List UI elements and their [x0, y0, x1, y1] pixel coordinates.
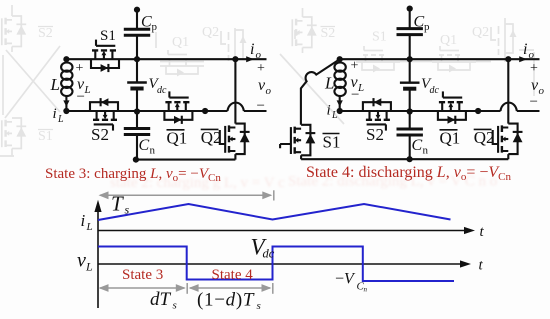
svg-text:−: − [77, 89, 85, 105]
svg-text:Q2: Q2 [472, 25, 489, 40]
svg-text:State 4: State 4 [212, 267, 254, 283]
svg-text:n: n [364, 286, 368, 294]
svg-text:S1: S1 [100, 28, 116, 44]
svg-text:i: i [250, 41, 254, 58]
svg-text:o: o [529, 49, 535, 61]
svg-text:State 4: discharging L, vo= −V: State 4: discharging L, vo= −VCn [306, 164, 511, 183]
svg-text:C: C [141, 14, 152, 31]
svg-text:s: s [125, 203, 130, 217]
svg-text:L: L [86, 221, 93, 233]
svg-text:S2: S2 [38, 26, 53, 41]
svg-text:i: i [53, 106, 57, 122]
svg-text:State 3: charging L, vo= −VCn: State 3: charging L, vo= −VCn [45, 166, 221, 184]
svg-text:S2: S2 [366, 125, 384, 144]
svg-text:−V: −V [335, 271, 356, 288]
svg-text:S1: S1 [372, 30, 387, 45]
svg-text:o: o [256, 49, 262, 61]
svg-text:Q1: Q1 [167, 129, 188, 148]
svg-text:s: s [173, 300, 177, 312]
svg-text:+: + [76, 61, 84, 76]
svg-text:State 3: State 3 [122, 267, 163, 283]
svg-text:dc: dc [430, 85, 440, 96]
svg-text:+: + [257, 61, 265, 76]
svg-text:n: n [423, 145, 429, 157]
svg-text:L: L [50, 75, 60, 94]
svg-text:s: s [257, 300, 261, 312]
svg-text:i: i [327, 103, 331, 119]
svg-text:+: + [351, 59, 359, 74]
svg-text:dT: dT [150, 289, 172, 310]
svg-text:S1: S1 [323, 133, 341, 152]
svg-text:L: L [85, 260, 93, 274]
svg-text:o: o [266, 85, 272, 97]
svg-text:Q1: Q1 [440, 33, 457, 48]
svg-text:i: i [81, 211, 86, 230]
svg-text:p: p [424, 21, 430, 33]
svg-text:C: C [414, 14, 425, 31]
svg-text:Q1: Q1 [440, 129, 461, 148]
svg-text:S2: S2 [321, 26, 336, 41]
svg-text:+: + [530, 61, 538, 76]
svg-text:(1−d)T: (1−d)T [197, 290, 255, 311]
svg-text:−: − [530, 94, 538, 110]
svg-text:v: v [77, 250, 86, 272]
svg-text:L: L [331, 110, 338, 121]
svg-text:L: L [324, 74, 334, 93]
svg-text:dc: dc [263, 247, 275, 261]
svg-text:o: o [539, 85, 545, 97]
svg-text:Q2: Q2 [474, 128, 495, 147]
svg-text:−: − [351, 87, 359, 103]
svg-text:S1: S1 [38, 129, 53, 144]
svg-text:C: C [412, 137, 423, 154]
svg-text:C: C [139, 137, 150, 154]
svg-text:i: i [523, 41, 527, 58]
svg-text:T: T [111, 192, 124, 216]
svg-text:Q1: Q1 [172, 35, 189, 50]
svg-text:p: p [152, 21, 158, 33]
svg-text:n: n [150, 145, 156, 157]
svg-text:−: − [257, 98, 265, 114]
svg-text:Q2: Q2 [202, 25, 219, 40]
svg-text:L: L [57, 114, 64, 125]
svg-text:dc: dc [157, 85, 167, 96]
svg-text:S2: S2 [91, 125, 109, 144]
svg-text:Q2: Q2 [201, 128, 222, 147]
